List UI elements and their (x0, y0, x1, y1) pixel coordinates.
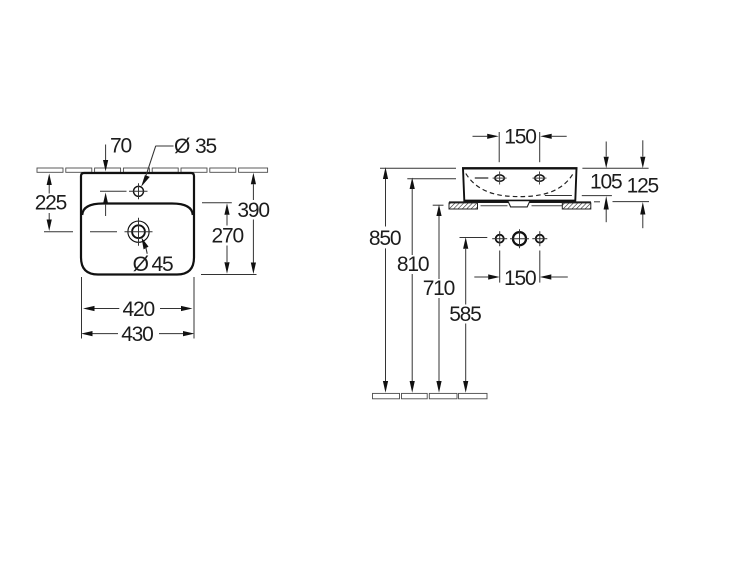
svg-text:Ø: Ø (174, 135, 190, 158)
svg-text:35: 35 (195, 135, 216, 158)
svg-text:105: 105 (590, 171, 622, 194)
svg-text:850: 850 (369, 227, 401, 250)
svg-text:810: 810 (397, 253, 429, 276)
svg-text:Ø: Ø (133, 253, 149, 276)
svg-text:150: 150 (504, 267, 536, 290)
svg-text:270: 270 (212, 225, 244, 248)
svg-text:390: 390 (237, 199, 269, 222)
svg-text:125: 125 (627, 175, 659, 198)
svg-text:150: 150 (504, 126, 536, 149)
svg-text:420: 420 (123, 298, 155, 321)
svg-text:585: 585 (449, 303, 481, 326)
svg-text:710: 710 (423, 277, 455, 300)
svg-text:45: 45 (152, 253, 173, 276)
svg-text:430: 430 (121, 323, 153, 346)
svg-text:70: 70 (110, 135, 131, 158)
svg-text:225: 225 (35, 192, 67, 215)
